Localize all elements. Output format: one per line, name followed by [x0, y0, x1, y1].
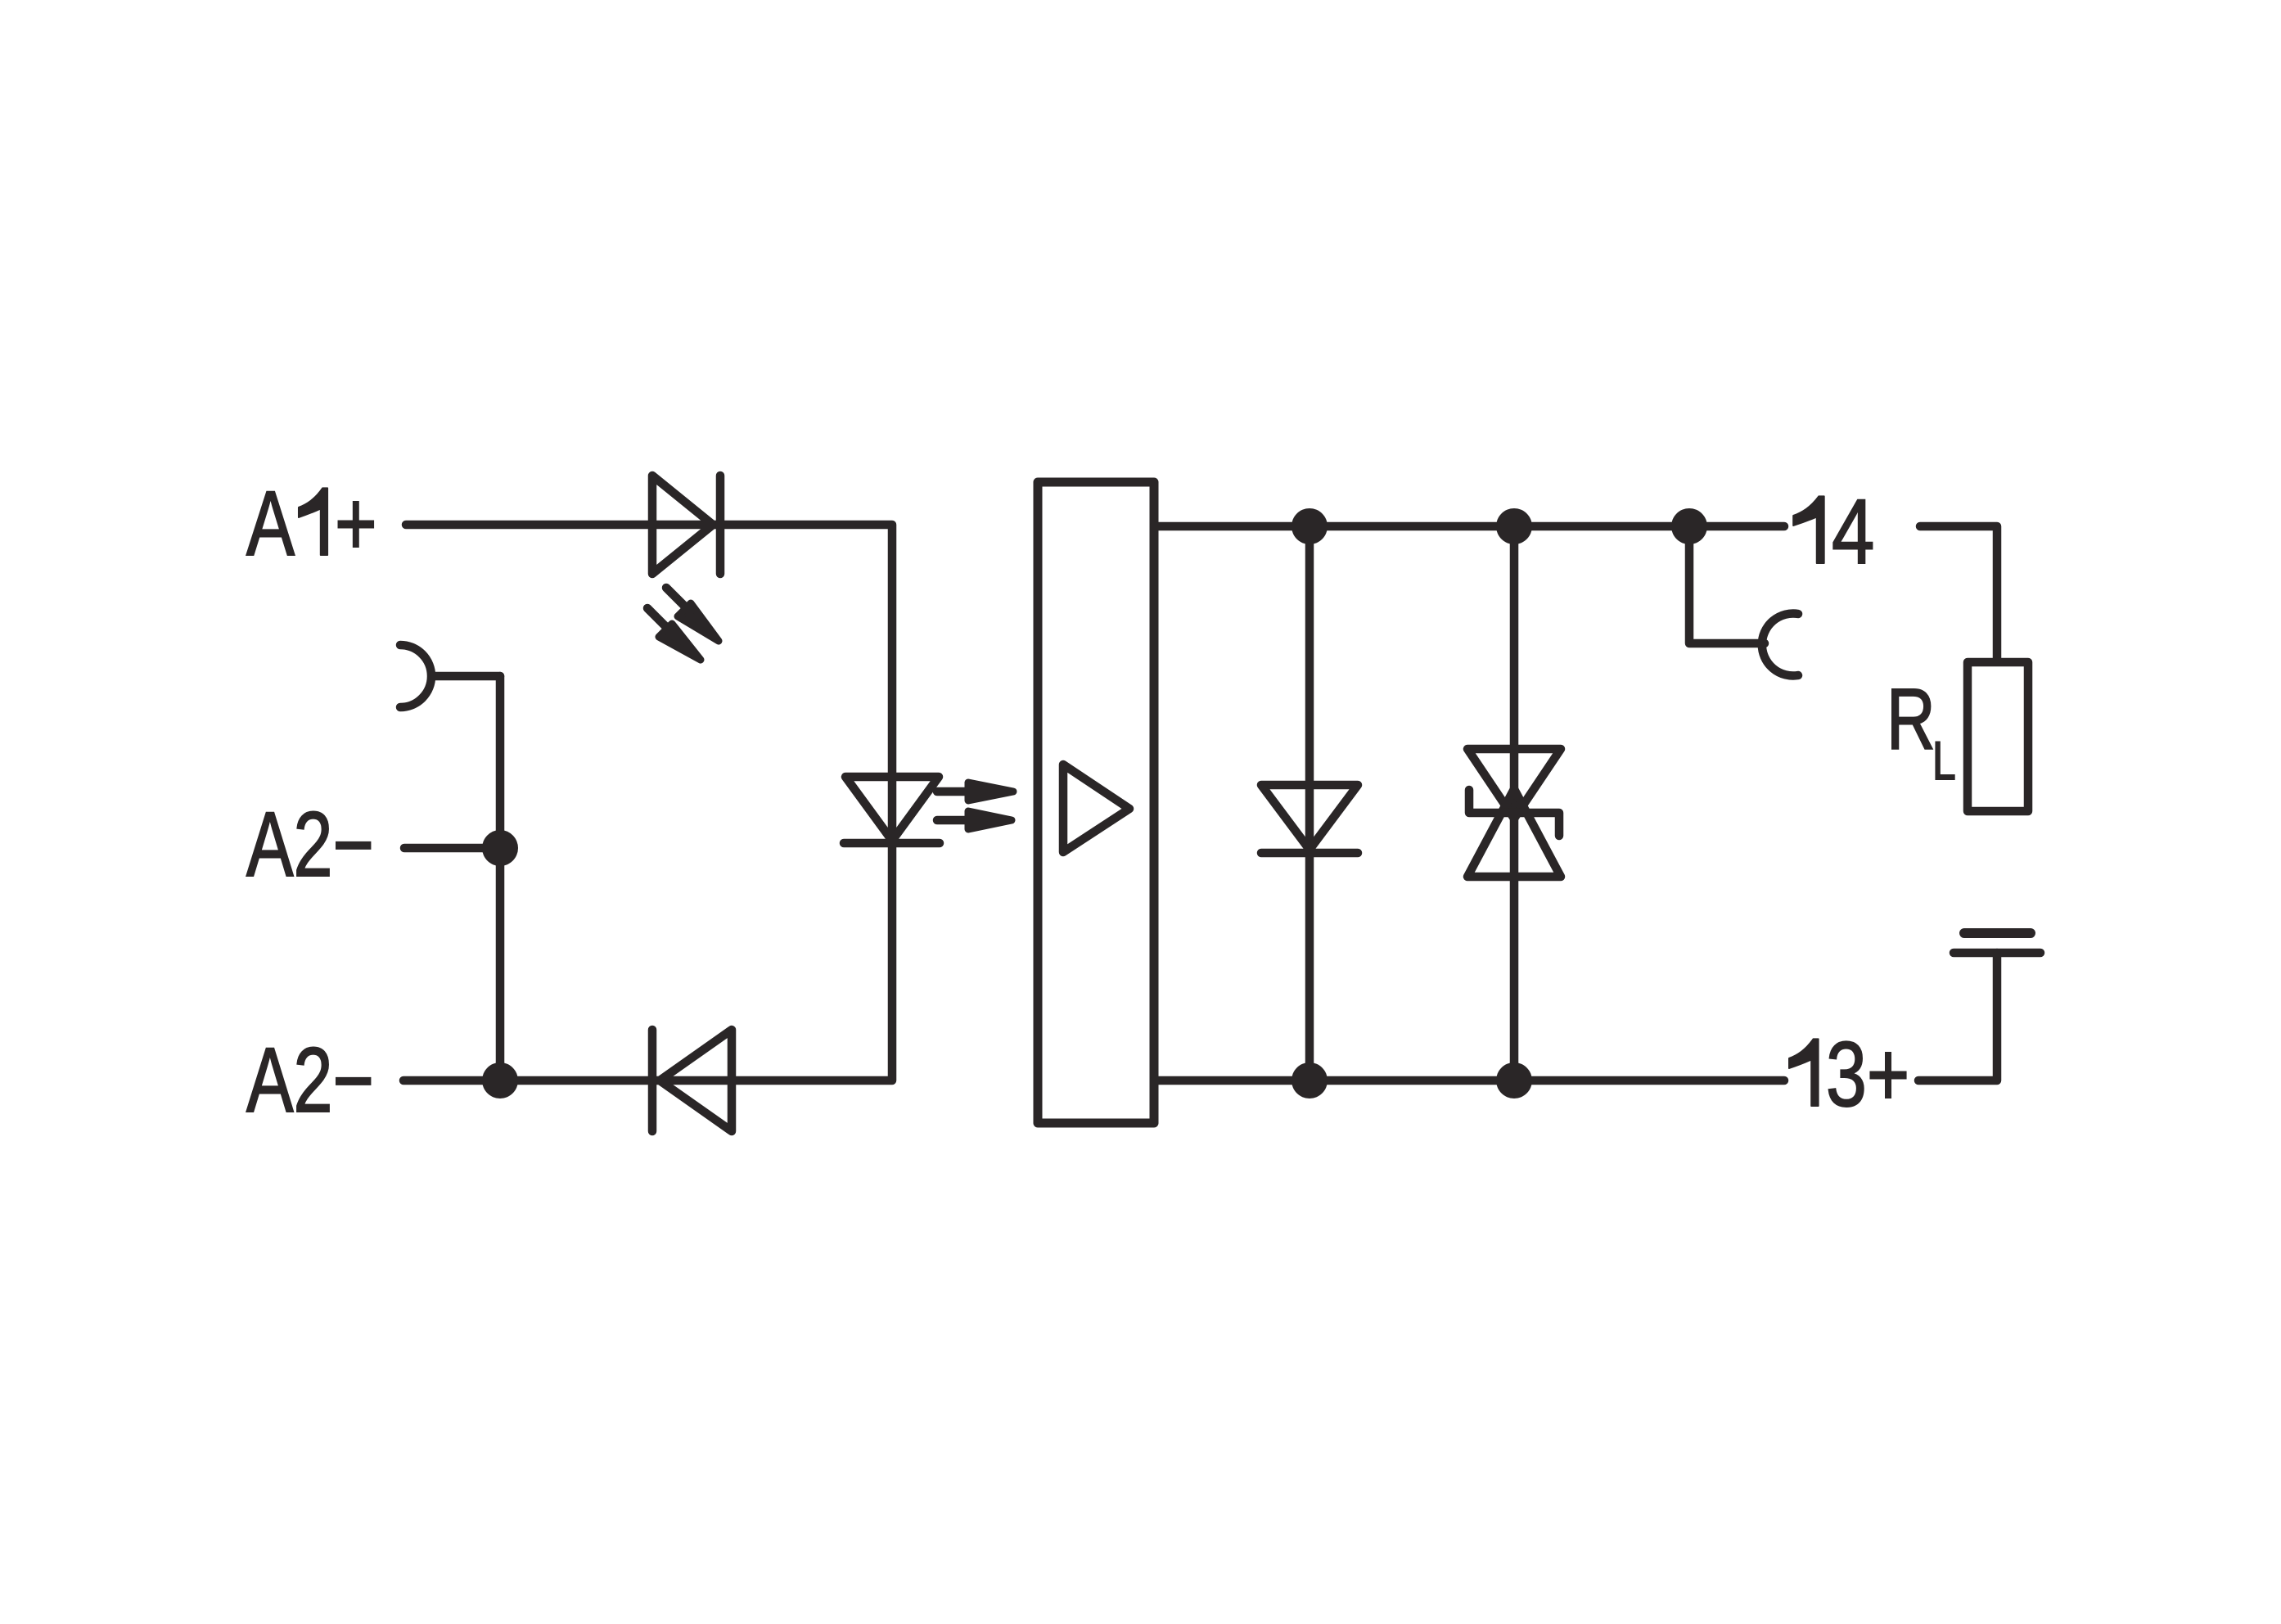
svg-text:A: A: [246, 473, 295, 575]
svg-text:A2−: A2−: [246, 1030, 374, 1131]
svg-text:L: L: [1932, 730, 1956, 792]
svg-text:3+: 3+: [1826, 1024, 1909, 1126]
svg-text:R: R: [1887, 671, 1936, 768]
svg-text:A2−: A2−: [246, 794, 374, 895]
svg-text:4: 4: [1832, 480, 1874, 583]
svg-text:+: +: [335, 473, 377, 575]
